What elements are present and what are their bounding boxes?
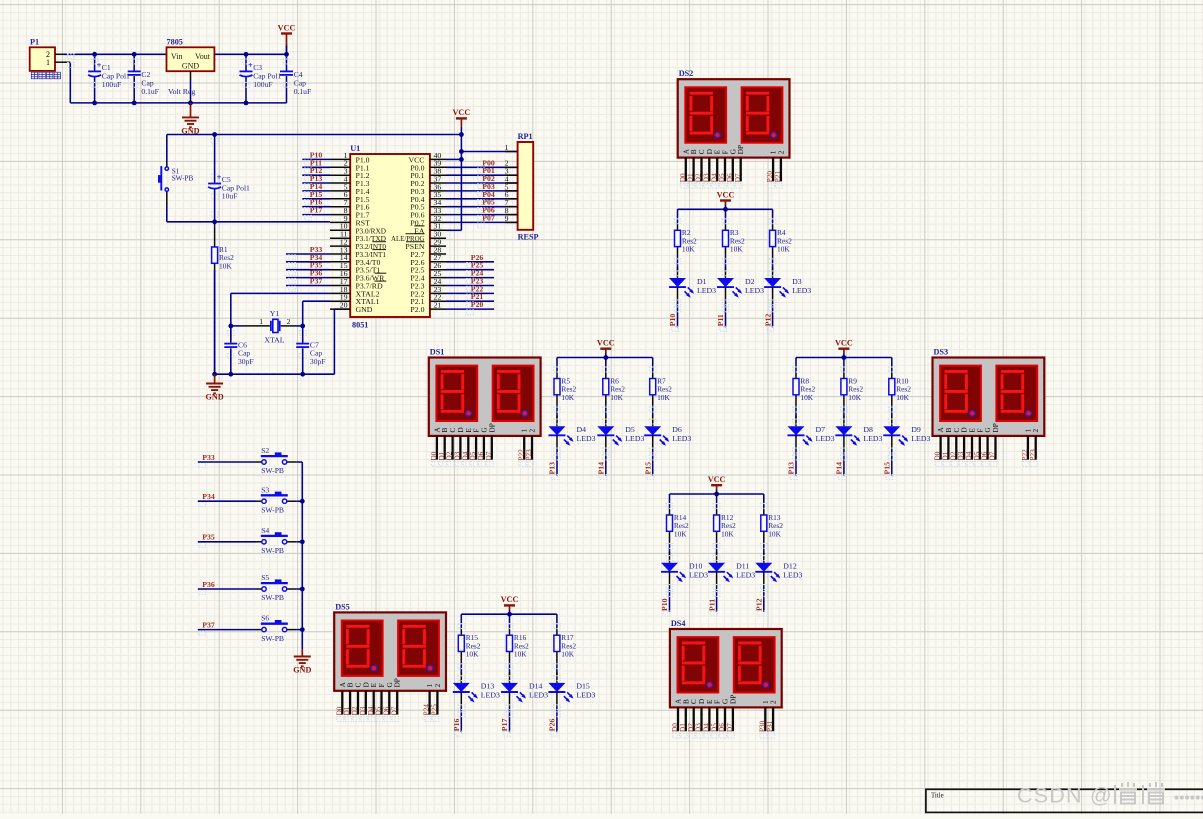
svg-text:Vout: Vout: [195, 52, 211, 61]
svg-text:D1: D1: [697, 277, 707, 286]
svg-text:D: D: [698, 699, 706, 704]
svg-text:P2.7: P2.7: [410, 250, 424, 259]
svg-text:LED3: LED3: [911, 434, 930, 443]
svg-text:D1: D1: [343, 706, 351, 715]
svg-text:LED3: LED3: [736, 571, 755, 580]
svg-text:VCC: VCC: [708, 475, 726, 484]
svg-text:VCC: VCC: [278, 23, 296, 32]
svg-text:D1: D1: [679, 723, 687, 732]
svg-text:P0.5: P0.5: [410, 203, 424, 212]
svg-text:P12: P12: [755, 598, 764, 611]
svg-text:LED3: LED3: [672, 434, 691, 443]
svg-text:D1: D1: [942, 451, 950, 460]
svg-text:GND: GND: [356, 305, 373, 314]
svg-text:P2.3: P2.3: [410, 282, 424, 291]
svg-text:P0.6: P0.6: [410, 211, 424, 220]
svg-text:7805: 7805: [167, 38, 183, 47]
svg-text:20: 20: [340, 301, 348, 310]
svg-text:SW-PB: SW-PB: [261, 505, 284, 514]
svg-text:P22: P22: [517, 449, 525, 461]
svg-text:DP: DP: [488, 423, 496, 432]
svg-text:P37: P37: [202, 620, 215, 629]
svg-text:10K: 10K: [466, 650, 479, 659]
svg-text:LED3: LED3: [481, 691, 500, 700]
svg-text:XTAL: XTAL: [264, 336, 284, 345]
svg-text:LED3: LED3: [689, 571, 708, 580]
svg-text:G: G: [729, 149, 737, 154]
svg-text:LED3: LED3: [863, 434, 882, 443]
svg-text:S5: S5: [261, 573, 269, 582]
svg-text:D6: D6: [672, 425, 682, 434]
svg-text:D5: D5: [469, 451, 477, 460]
svg-text:D2: D2: [695, 173, 703, 182]
svg-text:A: A: [682, 148, 690, 154]
svg-text:B: B: [682, 699, 690, 704]
svg-text:10K: 10K: [657, 393, 670, 402]
svg-text:P25: P25: [431, 704, 439, 716]
svg-text:F: F: [976, 429, 984, 433]
svg-text:D2: D2: [687, 723, 695, 732]
svg-text:LED3: LED3: [816, 434, 835, 443]
svg-text:P36: P36: [202, 580, 215, 589]
svg-text:P34: P34: [202, 492, 215, 501]
svg-text:P2.1: P2.1: [410, 297, 424, 306]
svg-text:GND: GND: [182, 62, 200, 71]
svg-text:10K: 10K: [514, 650, 527, 659]
svg-text:G: G: [480, 427, 488, 432]
svg-text:P16: P16: [452, 719, 461, 732]
svg-text:8051: 8051: [352, 321, 368, 330]
svg-text:D0: D0: [335, 706, 343, 715]
svg-text:D0: D0: [430, 451, 438, 460]
svg-text:D12: D12: [783, 562, 797, 571]
svg-text:D14: D14: [529, 682, 543, 691]
svg-text:P10: P10: [668, 314, 677, 327]
svg-text:P11: P11: [716, 314, 725, 326]
svg-text:1: 1: [770, 150, 778, 154]
svg-text:B: B: [441, 428, 449, 433]
svg-text:P31: P31: [766, 720, 774, 732]
svg-text:D3: D3: [454, 451, 462, 460]
svg-text:D7: D7: [390, 706, 398, 715]
svg-text:DS1: DS1: [430, 348, 445, 357]
svg-text:D5: D5: [375, 706, 383, 715]
svg-text:Vin: Vin: [171, 52, 183, 61]
svg-text:P14: P14: [835, 462, 844, 475]
svg-text:VCC: VCC: [717, 190, 735, 199]
svg-text:10K: 10K: [777, 245, 790, 254]
svg-text:P07: P07: [482, 213, 495, 222]
svg-text:A: A: [675, 698, 683, 704]
svg-text:E: E: [706, 699, 714, 704]
svg-text:D3: D3: [957, 451, 965, 460]
svg-text:LED3: LED3: [745, 286, 764, 295]
svg-text:DS4: DS4: [671, 619, 686, 628]
svg-text:Y1: Y1: [270, 309, 280, 318]
svg-text:P23: P23: [1029, 449, 1037, 461]
svg-text:G: G: [386, 682, 394, 687]
svg-text:VCC: VCC: [835, 339, 853, 348]
svg-text:D3: D3: [702, 173, 710, 182]
svg-text:D5: D5: [973, 451, 981, 460]
svg-text:RESP: RESP: [518, 233, 539, 242]
svg-text:SW-PB: SW-PB: [261, 546, 284, 555]
svg-text:P2.0: P2.0: [410, 305, 424, 314]
svg-text:S3: S3: [261, 485, 269, 494]
svg-text:D: D: [457, 427, 465, 432]
svg-text:DP: DP: [737, 145, 745, 154]
svg-text:0.1uF: 0.1uF: [141, 87, 159, 96]
svg-text:F: F: [714, 700, 722, 704]
svg-text:F: F: [722, 150, 730, 154]
svg-text:D11: D11: [736, 562, 749, 571]
svg-text:P0.1: P0.1: [410, 171, 424, 180]
svg-text:D4: D4: [461, 451, 469, 460]
svg-text:10K: 10K: [674, 529, 687, 538]
svg-text:1: 1: [259, 317, 263, 326]
svg-text:P2.5: P2.5: [410, 266, 424, 275]
svg-text:1: 1: [46, 58, 50, 67]
svg-text:P35: P35: [202, 533, 215, 542]
svg-text:VCC: VCC: [597, 339, 615, 348]
svg-text:A: A: [937, 427, 945, 433]
svg-text:SW-PB: SW-PB: [261, 634, 284, 643]
svg-text:S4: S4: [261, 526, 269, 535]
svg-text:G: G: [722, 699, 730, 704]
svg-text:D3: D3: [695, 723, 703, 732]
svg-text:P13: P13: [548, 462, 557, 475]
svg-text:C: C: [953, 428, 961, 433]
svg-text:P22: P22: [1021, 449, 1029, 461]
svg-text:SW-PB: SW-PB: [172, 175, 194, 183]
svg-text:VCC: VCC: [453, 108, 471, 117]
svg-text:10K: 10K: [768, 529, 781, 538]
svg-text:LED3: LED3: [625, 434, 644, 443]
svg-text:10K: 10K: [561, 650, 574, 659]
svg-text:C: C: [355, 682, 363, 687]
svg-text:P14: P14: [597, 462, 606, 475]
svg-text:LED3: LED3: [576, 691, 595, 700]
svg-text:E: E: [714, 149, 722, 154]
svg-text:A: A: [339, 681, 347, 687]
svg-text:DS5: DS5: [335, 602, 350, 611]
svg-text:D7: D7: [485, 451, 493, 460]
svg-text:LED3: LED3: [577, 434, 596, 443]
svg-text:10K: 10K: [682, 245, 695, 254]
svg-text:PSEN: PSEN: [405, 242, 424, 251]
svg-text:D13: D13: [481, 682, 495, 691]
svg-text:D7: D7: [816, 425, 826, 434]
svg-text:D15: D15: [576, 682, 590, 691]
svg-text:P24: P24: [423, 704, 431, 716]
svg-text:D4: D4: [577, 425, 587, 434]
svg-text:P20: P20: [471, 300, 484, 309]
svg-text:P33: P33: [202, 453, 215, 462]
svg-text:P37: P37: [310, 277, 323, 286]
svg-text:10K: 10K: [219, 261, 232, 270]
svg-text:RP1: RP1: [518, 132, 533, 141]
svg-text:D4: D4: [367, 706, 375, 715]
svg-text:D9: D9: [911, 425, 921, 434]
svg-text:DP: DP: [992, 423, 1000, 432]
svg-text:D0: D0: [679, 173, 687, 182]
svg-text:B: B: [945, 428, 953, 433]
svg-text:100uF: 100uF: [102, 80, 121, 89]
svg-text:1: 1: [762, 700, 770, 704]
svg-text:P10: P10: [660, 598, 669, 611]
svg-text:D1: D1: [438, 451, 446, 460]
svg-text:30pF: 30pF: [238, 357, 254, 366]
svg-text:P15: P15: [883, 462, 892, 475]
svg-text:D10: D10: [689, 562, 703, 571]
svg-text:D: D: [961, 427, 969, 432]
svg-text:D2: D2: [949, 451, 957, 460]
svg-text:P15: P15: [643, 462, 652, 475]
svg-text:D2: D2: [745, 277, 755, 286]
svg-text:P2.2: P2.2: [410, 289, 424, 298]
svg-text:P0.3: P0.3: [410, 187, 424, 196]
svg-text:P12: P12: [763, 314, 772, 327]
svg-text:P0.0: P0.0: [410, 163, 424, 172]
svg-text:30pF: 30pF: [310, 357, 326, 366]
svg-text:D7: D7: [726, 723, 734, 732]
svg-text:1: 1: [521, 429, 529, 433]
svg-text:GND: GND: [205, 393, 223, 402]
svg-text:DP: DP: [394, 678, 402, 687]
svg-text:P1: P1: [30, 38, 39, 47]
svg-text:10K: 10K: [561, 393, 574, 402]
svg-text:VCC: VCC: [408, 155, 424, 164]
svg-text:LED3: LED3: [792, 286, 811, 295]
svg-text:2: 2: [434, 683, 442, 687]
svg-text:Title: Title: [931, 793, 944, 800]
svg-text:2: 2: [770, 700, 778, 704]
svg-text:10K: 10K: [896, 393, 909, 402]
svg-text:SW-PB: SW-PB: [261, 466, 284, 475]
svg-text:P2.6: P2.6: [410, 258, 424, 267]
svg-text:VCC: VCC: [501, 595, 519, 604]
svg-text:D6: D6: [718, 723, 726, 732]
svg-text:2: 2: [777, 150, 785, 154]
svg-text:LED3: LED3: [697, 286, 716, 295]
svg-text:D6: D6: [981, 451, 989, 460]
svg-text:10K: 10K: [848, 393, 861, 402]
svg-text:CSDN @: CSDN @: [1017, 784, 1113, 808]
svg-text:F: F: [473, 429, 481, 433]
svg-text:0.1uF: 0.1uF: [294, 87, 312, 96]
svg-text:10K: 10K: [730, 245, 743, 254]
svg-text:D2: D2: [351, 706, 359, 715]
svg-text:2: 2: [529, 429, 537, 433]
svg-text:10uF: 10uF: [222, 192, 238, 201]
svg-text:D5: D5: [625, 425, 635, 434]
svg-text:LED3: LED3: [529, 691, 548, 700]
svg-text:G: G: [984, 427, 992, 432]
svg-text:1: 1: [505, 143, 509, 152]
svg-text:P30: P30: [758, 720, 766, 732]
svg-text:2: 2: [1032, 429, 1040, 433]
svg-text:D6: D6: [726, 173, 734, 182]
svg-text:D4: D4: [710, 173, 718, 182]
svg-text:1: 1: [426, 683, 434, 687]
svg-text:D6: D6: [382, 706, 390, 715]
svg-text:D5: D5: [710, 723, 718, 732]
svg-text:S2: S2: [261, 446, 269, 455]
svg-text:DP: DP: [729, 695, 737, 704]
svg-text:D3: D3: [792, 277, 802, 286]
svg-text:D6: D6: [477, 451, 485, 460]
svg-text:DS3: DS3: [934, 348, 949, 357]
svg-text:B: B: [690, 149, 698, 154]
svg-text:9: 9: [505, 214, 509, 223]
svg-text:DS2: DS2: [679, 69, 694, 78]
svg-text:U1: U1: [350, 144, 360, 153]
svg-text:P20: P20: [766, 171, 774, 183]
svg-text:D4: D4: [965, 451, 973, 460]
svg-text:A: A: [433, 427, 441, 433]
svg-text:F: F: [378, 683, 386, 687]
svg-text:LED3: LED3: [783, 571, 802, 580]
svg-text:P17: P17: [310, 206, 323, 215]
svg-text:SW-PB: SW-PB: [261, 593, 284, 602]
svg-text:D3: D3: [359, 706, 367, 715]
svg-text:C: C: [449, 428, 457, 433]
svg-text:B: B: [347, 682, 355, 687]
svg-text:10K: 10K: [721, 529, 734, 538]
svg-text:E: E: [969, 428, 977, 433]
svg-text:P26: P26: [548, 719, 557, 732]
svg-text:P17: P17: [500, 719, 509, 732]
svg-text:S6: S6: [261, 614, 269, 623]
svg-text:P0.2: P0.2: [410, 179, 424, 188]
svg-text:D0: D0: [671, 723, 679, 732]
svg-text:10K: 10K: [610, 393, 623, 402]
svg-text:D8: D8: [863, 425, 873, 434]
svg-text:C: C: [690, 699, 698, 704]
svg-text:P13: P13: [787, 462, 796, 475]
svg-text:GND: GND: [293, 666, 311, 675]
svg-text:D1: D1: [687, 173, 695, 182]
svg-text:D0: D0: [934, 451, 942, 460]
svg-text:D7: D7: [734, 173, 742, 182]
svg-text:E: E: [370, 682, 378, 687]
svg-text:40: 40: [434, 151, 442, 160]
svg-text:Volt Reg: Volt Reg: [168, 87, 195, 96]
svg-text:1: 1: [1024, 429, 1032, 433]
svg-text:2: 2: [287, 317, 291, 326]
svg-text:D2: D2: [446, 451, 454, 460]
svg-text:10K: 10K: [800, 393, 813, 402]
svg-text:P0.4: P0.4: [410, 195, 424, 204]
svg-text:D7: D7: [989, 451, 997, 460]
svg-text:P23: P23: [525, 449, 533, 461]
svg-text:D4: D4: [703, 723, 711, 732]
svg-text:E: E: [465, 428, 473, 433]
svg-text:100uF: 100uF: [253, 80, 272, 89]
svg-text:P2.4: P2.4: [410, 274, 424, 283]
svg-text:D: D: [362, 682, 370, 687]
svg-text:D5: D5: [718, 173, 726, 182]
svg-text:D: D: [706, 149, 714, 154]
svg-text:P11: P11: [707, 599, 716, 611]
svg-text:P21: P21: [774, 171, 782, 183]
svg-text:C: C: [698, 149, 706, 154]
